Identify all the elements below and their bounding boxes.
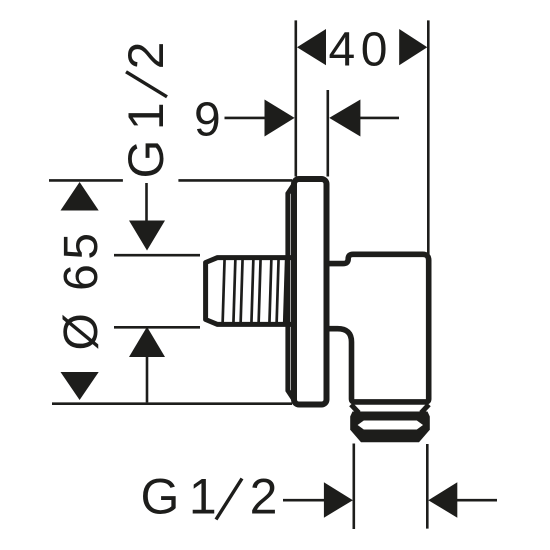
bottom dim right tail [456, 499, 497, 502]
outlet neck left slant [351, 405, 359, 413]
nipple top extension line [114, 254, 200, 257]
dim 40 left arrow [297, 29, 326, 65]
svg-text:G1: G1 [118, 93, 174, 179]
svg-text:G1: G1 [141, 469, 227, 525]
svg-text:Ø 65: Ø 65 [55, 228, 108, 350]
nipple bottom extension line [114, 326, 200, 329]
bottom dim right-pointing arrow [324, 482, 353, 517]
dim O65 up arrow [61, 182, 99, 211]
dim G1/2 left leader line [145, 183, 148, 221]
dim G1/2 up arrow tail [146, 356, 149, 402]
extension line right of 9 dim [326, 90, 329, 177]
dim 9 right tail [359, 117, 399, 120]
svg-text:9: 9 [194, 94, 221, 147]
dim O65 bottom extension line [52, 402, 292, 405]
nipple thread lines [223, 258, 287, 324]
extension line left of 40 dim [294, 20, 297, 176]
flange front lip [288, 184, 295, 401]
dim 9 leader line [225, 117, 267, 120]
extension line right of 40 dim [427, 20, 430, 255]
dim G1/2 down arrow [129, 221, 165, 251]
threaded nipple outline [206, 258, 292, 325]
body elbow outline [326, 254, 429, 402]
dim 9 right-pointing arrow [265, 100, 295, 137]
bottom dim left tail [283, 499, 325, 502]
svg-text:2: 2 [250, 469, 278, 525]
flange escutcheon (side view) [294, 179, 327, 405]
dim 40 right arrow [399, 29, 427, 65]
bottom dim right extension line [426, 444, 429, 529]
outlet neck right slant [421, 405, 429, 413]
dim 9 left-pointing arrow [329, 100, 360, 137]
dim O65 down arrow [61, 372, 99, 400]
svg-text:40: 40 [329, 23, 393, 76]
dim G1/2 left label (rotated) [118, 42, 174, 179]
bottom dim left-pointing arrow [428, 482, 457, 517]
dim O65 top extension line (two segments, gap at G1/2 label) [49, 179, 123, 182]
outlet slot (white hexagon) [358, 421, 423, 430]
outlet nut (filled) [350, 412, 430, 443]
dim G1/2 up arrow [129, 327, 165, 357]
bottom dim left extension line [352, 444, 355, 530]
svg-text:2: 2 [118, 42, 174, 70]
